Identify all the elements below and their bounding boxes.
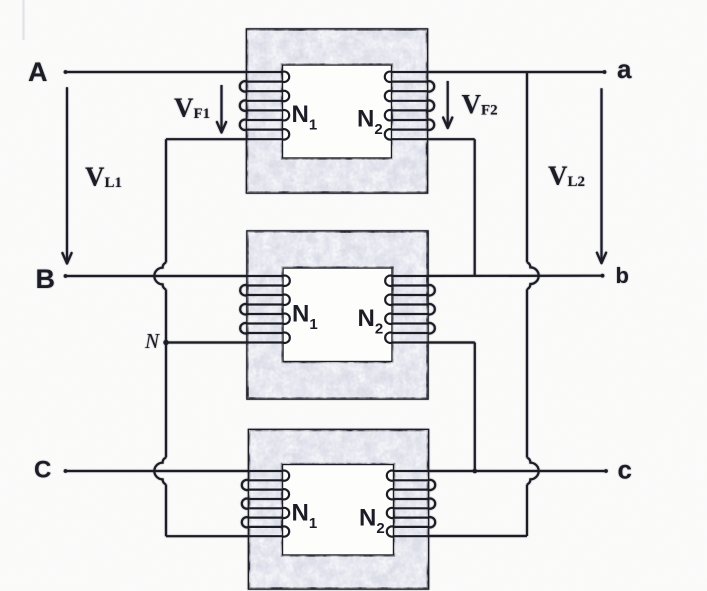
node B terminal dot (64, 274, 68, 278)
arrow V_L2 (line voltage a-b, down) (600, 88, 602, 262)
arrow V_F2 (phase voltage, down) (447, 81, 449, 127)
wire phase line a (right segment, winding N2 of T1 to node a) (392, 71, 605, 73)
arrow V_F1 (phase voltage, down) (220, 85, 222, 131)
wire a line drop to T3 secondary (vertical, hops over b and c lines) (526, 72, 528, 262)
wire phase line b (right segment, winding N2 of T2 to node b) (393, 275, 603, 277)
wire neutral N to T2 primary bottom (horizontal) (166, 341, 248, 343)
wire phase line c (right segment, winding N2 of T3 to node c) (394, 470, 606, 472)
wire phase line A (left segment, node A to winding N1 of T1) (66, 71, 283, 73)
node C terminal dot (64, 469, 68, 473)
secondary winding N2 of T3 (coil on right leg) (387, 471, 435, 537)
svg-text:B: B (36, 264, 56, 294)
svg-text:A: A (28, 57, 48, 87)
node a terminal dot (603, 70, 607, 74)
wire T2 secondary drop to c line (vertical) (474, 343, 476, 472)
junction dot on c line (473, 469, 478, 474)
wire neutral bus to T3 primary bottom (horizontal) (166, 535, 249, 537)
wire T3 secondary bottom to a-drop (horizontal) (428, 535, 527, 537)
wire T1 secondary bottom to b line (horizontal) (427, 138, 475, 140)
wire T1 secondary drop to b line (vertical) (474, 139, 476, 276)
wire T1 primary bottom to neutral bus (horizontal) (166, 138, 247, 140)
page scan artifact (faint left-edge line) (23, 0, 25, 40)
transformer T1 iron core (shaded) (247, 30, 427, 193)
wire neutral bus vertical (hops over B and C lines) (165, 139, 167, 262)
svg-text:b: b (616, 263, 629, 288)
secondary winding N2 of T2 (coil on right leg) (385, 276, 435, 343)
primary winding N1 of T2 (coil on left leg) (240, 276, 290, 343)
wire phase line C (left segment, node C to winding N1 of T3) (66, 470, 283, 472)
node b terminal dot (601, 274, 605, 278)
transformer T2 iron core (shaded) (248, 232, 428, 399)
svg-text:c: c (618, 455, 632, 485)
arrow V_L1 (line voltage A-B, down) (66, 87, 68, 262)
wire T2 secondary bottom to c line (horizontal) (428, 341, 475, 343)
node c terminal dot (604, 469, 608, 473)
wire phase line B (left segment, node B to winding N1 of T2) (66, 275, 283, 277)
transformer T3 iron core (shaded) (249, 430, 428, 589)
node A terminal dot (64, 70, 68, 74)
primary winding N1 of T1 (coil on left leg) (240, 72, 289, 140)
svg-text:C: C (34, 457, 51, 484)
svg-text:a: a (617, 54, 632, 84)
primary winding N1 of T3 (coil on left leg) (242, 471, 289, 537)
node N (neutral star point) (163, 340, 168, 345)
secondary winding N2 of T1 (coil on right leg) (385, 72, 434, 140)
core mottled scan texture (240, 20, 440, 591)
svg-text:N: N (144, 329, 160, 353)
